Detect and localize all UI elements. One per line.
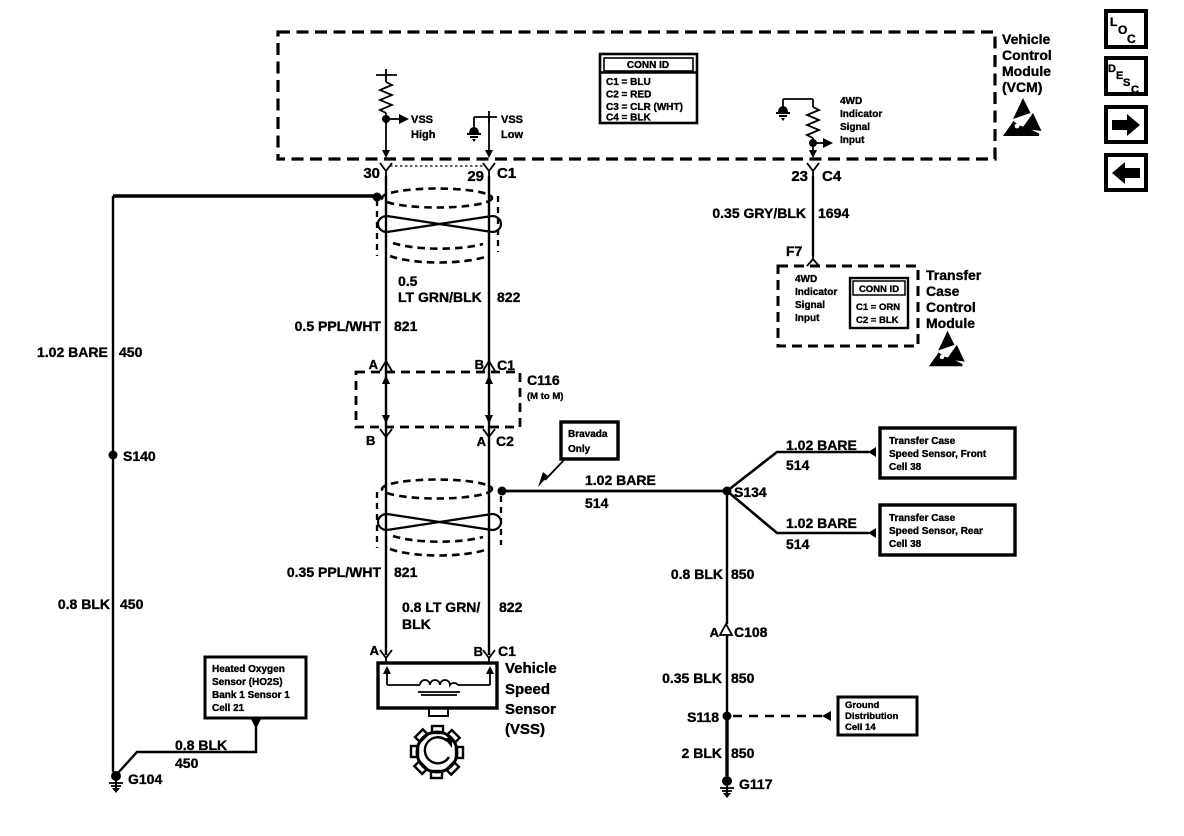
resistor R (VSS High pullup) bbox=[376, 69, 409, 158]
svg-text:S118: S118 bbox=[687, 709, 719, 725]
svg-text:(VSS): (VSS) bbox=[505, 721, 545, 738]
svg-text:S140: S140 bbox=[123, 448, 156, 464]
svg-text:514: 514 bbox=[786, 457, 810, 473]
svg-text:Transfer Case: Transfer Case bbox=[889, 513, 956, 524]
svg-text:Speed Sensor, Rear: Speed Sensor, Rear bbox=[889, 526, 983, 537]
svg-text:(VCM): (VCM) bbox=[1002, 79, 1042, 95]
svg-text:F7: F7 bbox=[786, 243, 803, 259]
svg-text:BLK: BLK bbox=[402, 616, 431, 632]
connector C108 bbox=[720, 624, 732, 635]
svg-text:1.02 BARE: 1.02 BARE bbox=[786, 437, 857, 453]
svg-text:Control: Control bbox=[1002, 47, 1052, 63]
svg-text:29: 29 bbox=[467, 168, 484, 185]
splice S134 bbox=[723, 487, 732, 496]
wire left conductor bbox=[385, 176, 387, 655]
svg-text:C1 = ORN: C1 = ORN bbox=[856, 302, 900, 313]
connector C116 bbox=[356, 361, 520, 443]
svg-text:Signal: Signal bbox=[795, 300, 825, 311]
svg-text:850: 850 bbox=[731, 745, 755, 761]
svg-text:1.02 BARE: 1.02 BARE bbox=[585, 472, 656, 488]
svg-text:Input: Input bbox=[795, 313, 820, 324]
svg-text:S: S bbox=[1123, 77, 1130, 89]
svg-text:C: C bbox=[1127, 32, 1136, 46]
resistor 4WD pullup bbox=[776, 99, 833, 158]
svg-text:1694: 1694 bbox=[818, 205, 849, 221]
module box Transfer Case Control Module bbox=[778, 266, 918, 346]
svg-text:0.8 BLK: 0.8 BLK bbox=[58, 596, 110, 612]
svg-text:Sensor (HO2S): Sensor (HO2S) bbox=[212, 677, 283, 688]
box Transfer Case Speed Sensor Front bbox=[880, 428, 1015, 478]
svg-text:822: 822 bbox=[497, 289, 521, 305]
CONN ID table (VCM) bbox=[600, 54, 697, 124]
svg-text:0.5: 0.5 bbox=[398, 273, 418, 289]
svg-text:Speed: Speed bbox=[505, 681, 550, 698]
svg-text:850: 850 bbox=[731, 670, 755, 686]
svg-text:CONN ID: CONN ID bbox=[859, 284, 899, 295]
wire S134 down bbox=[726, 491, 728, 624]
svg-text:Heated Oxygen: Heated Oxygen bbox=[212, 664, 285, 675]
icon arrow right bbox=[1106, 107, 1146, 142]
svg-text:821: 821 bbox=[394, 318, 418, 334]
svg-text:A: A bbox=[710, 625, 720, 640]
svg-text:Vehicle: Vehicle bbox=[505, 660, 557, 677]
pin 23 / C4 bbox=[791, 163, 842, 185]
svg-text:Signal: Signal bbox=[840, 122, 870, 133]
svg-text:Transfer Case: Transfer Case bbox=[889, 436, 956, 447]
svg-text:C: C bbox=[1131, 84, 1139, 96]
svg-text:0.35 BLK: 0.35 BLK bbox=[662, 670, 722, 686]
svg-text:Ground: Ground bbox=[845, 700, 879, 711]
svg-text:C3 = CLR (WHT): C3 = CLR (WHT) bbox=[606, 102, 683, 113]
svg-text:A: A bbox=[370, 643, 380, 658]
svg-text:Cell 38: Cell 38 bbox=[889, 539, 922, 550]
dashed wire to ground dist bbox=[733, 715, 822, 718]
gear (reluctor) bbox=[411, 726, 463, 778]
svg-text:L: L bbox=[1110, 15, 1117, 29]
svg-text:C116: C116 bbox=[527, 372, 560, 388]
svg-text:Cell 38: Cell 38 bbox=[889, 462, 922, 473]
svg-text:Control: Control bbox=[926, 299, 976, 315]
svg-text:VSS: VSS bbox=[411, 114, 433, 126]
box Ground Distribution bbox=[838, 697, 917, 735]
bowtie bbox=[387, 216, 492, 232]
svg-text:C2 = BLK: C2 = BLK bbox=[856, 315, 899, 326]
splice S118 bbox=[723, 712, 732, 721]
svg-text:Bravada: Bravada bbox=[568, 429, 608, 440]
svg-text:4WD: 4WD bbox=[795, 274, 817, 285]
svg-text:0.8 BLK: 0.8 BLK bbox=[671, 566, 723, 582]
svg-text:Cell 14: Cell 14 bbox=[845, 722, 876, 733]
wire right conductor bbox=[488, 176, 490, 655]
svg-text:0.35 GRY/BLK: 0.35 GRY/BLK bbox=[712, 205, 806, 221]
box Transfer Case Speed Sensor Rear bbox=[880, 505, 1015, 555]
svg-text:Only: Only bbox=[568, 444, 591, 455]
svg-text:Cell 21: Cell 21 bbox=[212, 703, 245, 714]
svg-text:High: High bbox=[411, 129, 436, 141]
wire S118 to G117 bbox=[725, 716, 728, 776]
svg-text:G104: G104 bbox=[128, 771, 162, 787]
svg-text:C1: C1 bbox=[497, 165, 516, 182]
splice S140 bbox=[109, 451, 118, 460]
svg-text:450: 450 bbox=[175, 755, 199, 771]
box Bravada Only bbox=[561, 422, 618, 459]
svg-text:D: D bbox=[1108, 63, 1116, 75]
svg-text:LT GRN/BLK: LT GRN/BLK bbox=[398, 289, 482, 305]
box Heated Oxygen Sensor bbox=[205, 657, 306, 718]
ground G104 bbox=[109, 771, 123, 793]
svg-text:2 BLK: 2 BLK bbox=[682, 745, 722, 761]
shield (upper twisted pair) bbox=[373, 189, 502, 263]
wire to front sensor bbox=[727, 452, 869, 491]
svg-text:30: 30 bbox=[363, 165, 380, 182]
wire to rear sensor bbox=[727, 491, 869, 533]
svg-text:Bank 1 Sensor 1: Bank 1 Sensor 1 bbox=[212, 690, 290, 701]
svg-text:VSS: VSS bbox=[501, 114, 523, 126]
wire HO2S to G104 bbox=[251, 719, 261, 729]
svg-text:Transfer: Transfer bbox=[926, 267, 982, 283]
esd symbol TCCM bbox=[929, 331, 965, 366]
wire 0.35 GRY/BLK 1694 bbox=[812, 176, 814, 256]
svg-text:514: 514 bbox=[585, 495, 609, 511]
svg-text:0.5 PPL/WHT: 0.5 PPL/WHT bbox=[295, 318, 382, 334]
svg-text:0.8 BLK: 0.8 BLK bbox=[175, 737, 227, 753]
svg-text:Distribution: Distribution bbox=[845, 711, 898, 722]
svg-text:450: 450 bbox=[120, 596, 144, 612]
shield (lower twisted pair) bbox=[377, 480, 507, 556]
svg-text:0.35 PPL/WHT: 0.35 PPL/WHT bbox=[287, 564, 382, 580]
CONN ID table (TCCM) bbox=[850, 278, 908, 328]
VSS sensor box bbox=[378, 663, 497, 716]
svg-text:Module: Module bbox=[1002, 63, 1051, 79]
svg-text:Indicator: Indicator bbox=[840, 109, 882, 120]
svg-text:(M to M): (M to M) bbox=[527, 391, 563, 402]
module box VCM bbox=[278, 32, 995, 159]
svg-text:Module: Module bbox=[926, 315, 975, 331]
svg-text:23: 23 bbox=[791, 168, 808, 185]
svg-text:C108: C108 bbox=[734, 624, 768, 640]
svg-text:S134: S134 bbox=[734, 484, 767, 500]
esd symbol VCM bbox=[1003, 98, 1042, 136]
svg-text:1.02 BARE: 1.02 BARE bbox=[786, 515, 857, 531]
svg-text:Vehicle: Vehicle bbox=[1002, 31, 1050, 47]
svg-text:B: B bbox=[475, 357, 484, 372]
icon arrow left bbox=[1106, 155, 1146, 190]
VSS Low internal bbox=[467, 111, 497, 158]
svg-text:Sensor: Sensor bbox=[505, 701, 556, 718]
svg-text:B: B bbox=[366, 433, 375, 448]
wire 1.02 BARE 450 bbox=[113, 194, 374, 198]
connector dotted line bbox=[390, 165, 486, 167]
svg-text:C1 = BLU: C1 = BLU bbox=[606, 77, 651, 88]
svg-text:A: A bbox=[369, 357, 379, 372]
svg-text:4WD: 4WD bbox=[840, 96, 862, 107]
pin 29 / C1 bbox=[467, 163, 516, 185]
pin 30 bbox=[363, 163, 392, 182]
svg-text:C4: C4 bbox=[822, 168, 842, 185]
svg-text:Speed Sensor, Front: Speed Sensor, Front bbox=[889, 449, 987, 460]
svg-text:850: 850 bbox=[731, 566, 755, 582]
svg-text:Indicator: Indicator bbox=[795, 287, 837, 298]
svg-text:G117: G117 bbox=[739, 776, 773, 792]
svg-text:A: A bbox=[477, 434, 487, 449]
svg-text:C2 = RED: C2 = RED bbox=[606, 90, 651, 101]
icon DESC bbox=[1106, 58, 1146, 96]
svg-text:821: 821 bbox=[394, 564, 418, 580]
svg-text:Input: Input bbox=[840, 135, 865, 146]
svg-text:514: 514 bbox=[786, 536, 810, 552]
svg-text:C2: C2 bbox=[496, 433, 514, 449]
icon LOC bbox=[1106, 11, 1146, 47]
svg-text:C4 = BLK: C4 = BLK bbox=[606, 113, 652, 124]
svg-text:822: 822 bbox=[499, 599, 523, 615]
svg-text:B: B bbox=[474, 644, 483, 659]
svg-text:1.02 BARE: 1.02 BARE bbox=[37, 344, 108, 360]
svg-text:CONN ID: CONN ID bbox=[627, 60, 669, 71]
svg-text:C1: C1 bbox=[498, 643, 516, 659]
ground G117 bbox=[720, 776, 734, 798]
svg-text:Low: Low bbox=[501, 129, 523, 141]
arrow Bravada bbox=[545, 460, 564, 480]
svg-text:0.8 LT GRN/: 0.8 LT GRN/ bbox=[402, 599, 480, 615]
svg-text:450: 450 bbox=[119, 344, 143, 360]
wire 1.02 BARE 514 bbox=[502, 490, 727, 493]
svg-text:Case: Case bbox=[926, 283, 960, 299]
svg-text:O: O bbox=[1118, 23, 1127, 37]
svg-text:C1: C1 bbox=[497, 357, 515, 373]
